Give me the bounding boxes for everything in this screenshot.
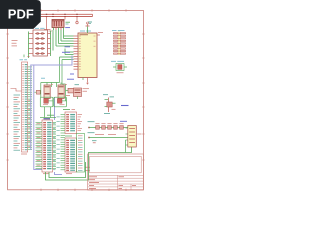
U3 pins right <box>48 34 51 54</box>
ground G1 <box>88 22 92 23</box>
capacitor C3 <box>66 88 81 95</box>
J1 bottom label <box>21 153 27 155</box>
net PWR2 <box>88 133 128 139</box>
transistor Q1 <box>103 95 116 114</box>
J1 right stubs <box>28 67 32 150</box>
wire W3 <box>49 162 86 178</box>
wire bundle N1 <box>49 30 74 56</box>
bus B1 <box>31 47 72 170</box>
net label NL2 <box>44 118 51 120</box>
K1 pins <box>126 128 128 153</box>
connector J2 <box>42 115 54 172</box>
J2 right stubs <box>53 123 57 170</box>
crystal Y3 <box>54 97 67 107</box>
U2 pins <box>54 28 64 31</box>
J2 bottom label <box>43 173 49 175</box>
title block text <box>89 177 136 189</box>
bus B2 <box>55 97 63 175</box>
wire W2 <box>46 147 132 180</box>
crystal Y1 <box>111 61 127 73</box>
oscillator group <box>41 78 74 101</box>
wire group N2 <box>60 49 74 85</box>
resistor R1 <box>35 90 41 94</box>
J1 left labels <box>11 89 22 151</box>
title block <box>88 154 144 190</box>
capacitor C1 <box>44 84 53 98</box>
net label NL1 <box>121 105 129 107</box>
resistor network RN1 <box>112 31 126 55</box>
connector J4 <box>65 136 77 174</box>
IC U1 <box>78 31 97 78</box>
PDF badge <box>0 0 41 29</box>
J3 left stubs <box>57 115 66 170</box>
relay K1 <box>120 121 142 147</box>
capacitor C2 <box>58 84 67 98</box>
wire W1 <box>40 107 56 118</box>
wire frame W4 <box>77 134 85 173</box>
power bus <box>41 14 93 16</box>
crystal Y2 <box>40 97 53 107</box>
ground G2 <box>92 141 97 143</box>
wire VCC drop <box>43 17 65 33</box>
supply flag P1 <box>76 17 78 24</box>
net PWR1 <box>88 122 128 129</box>
svg-text:PDF: PDF <box>8 6 34 21</box>
connector J3 <box>63 109 77 133</box>
U3 pins left <box>12 32 34 59</box>
U1 pins left <box>74 36 96 69</box>
J3 right labels <box>78 115 90 171</box>
regulator U2 <box>52 20 70 28</box>
J2 left labels <box>36 123 43 169</box>
switch S1 <box>74 85 90 99</box>
U1 power net <box>86 22 90 33</box>
connector J1 <box>20 55 30 153</box>
IC U3 <box>33 28 48 56</box>
diodes D1-D5 <box>95 124 123 130</box>
U1 bottom nets <box>70 32 103 84</box>
